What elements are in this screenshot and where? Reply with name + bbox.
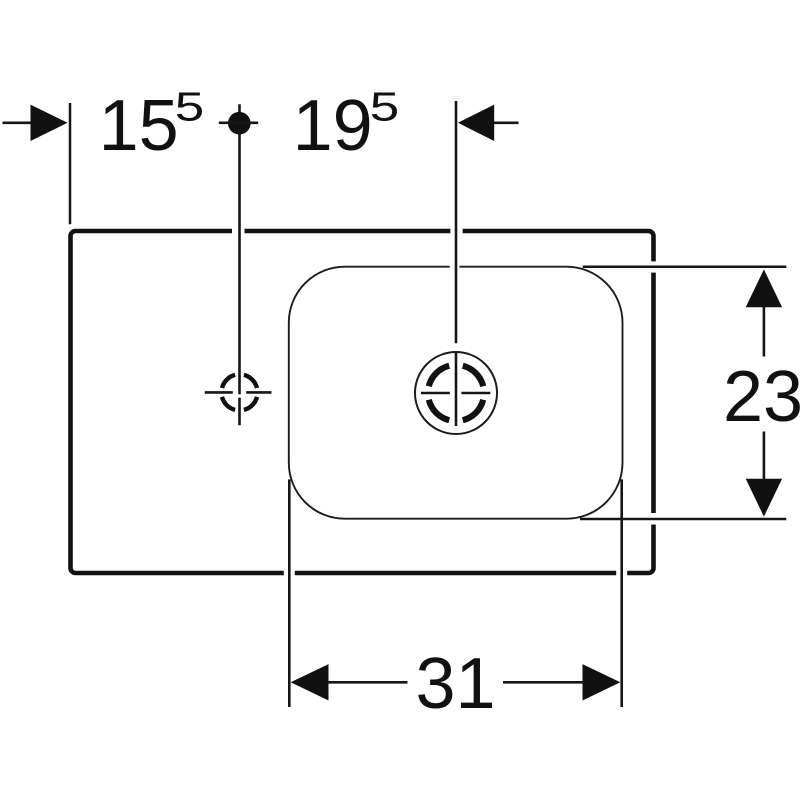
extension line basin top (23 dim) (583, 266, 787, 269)
dimension 31 left line (328, 681, 408, 684)
common point dot (228, 112, 251, 135)
drain inner ring arcs (429, 366, 483, 420)
gap in outline at top 23-extension crossing (right) (649, 261, 659, 272)
dimension 23 lower arrowhead (746, 479, 782, 517)
dimension 23 upper arrowhead (746, 269, 782, 307)
dimension 15.5 arrowhead (31, 105, 68, 141)
basin bowl rim (289, 267, 623, 519)
svg-text:5: 5 (370, 84, 400, 130)
extension line basin right (31 dim) (620, 479, 623, 707)
dot horizontal tick (219, 122, 258, 125)
label 15.5 (99, 84, 205, 167)
extension line left edge (15.5 dim) (69, 103, 72, 224)
svg-text:5: 5 (175, 84, 205, 130)
tap hole symbol arcs (222, 375, 257, 410)
svg-text:31: 31 (415, 644, 495, 724)
gap in outline at drain centerline crossing (top) (450, 226, 462, 236)
tap hole centerline horizontal (205, 391, 272, 394)
dimension 15.5 arrow tail (3, 122, 32, 125)
svg-text:15: 15 (99, 86, 179, 166)
extension line basin left (31 dim) (288, 479, 291, 707)
dimension 31 left arrowhead (291, 664, 329, 700)
gap in outline at right 31-extension crossing (bottom) (616, 568, 627, 578)
dimension 31 right arrowhead (583, 664, 621, 700)
washbasin outer outline (71, 231, 654, 573)
drain centerline horizontal (421, 392, 490, 395)
tap hole centerline vertical (238, 104, 241, 425)
gap in outline at bottom 23-extension crossing (right) (649, 513, 659, 525)
svg-text:23: 23 (723, 357, 800, 437)
dimension 31 right line (503, 681, 584, 684)
dimension 23 lower line (763, 432, 766, 480)
drain centerline vertical (455, 101, 458, 426)
extension line basin bottom (23 dim) (580, 518, 786, 521)
gap in basin rim at drain centerline crossing (450, 262, 460, 271)
dimension 19.5 arrowhead (458, 105, 494, 141)
drain outer circle (415, 352, 497, 434)
gap in outline at left 31-extension crossing (bottom) (284, 568, 295, 578)
svg-text:19: 19 (293, 86, 373, 166)
dimension 23 upper line (763, 307, 766, 357)
dimension 19.5 arrow tail (494, 122, 519, 125)
gap in outline at tap centerline crossing (232, 226, 245, 236)
label 19.5 (293, 84, 400, 167)
